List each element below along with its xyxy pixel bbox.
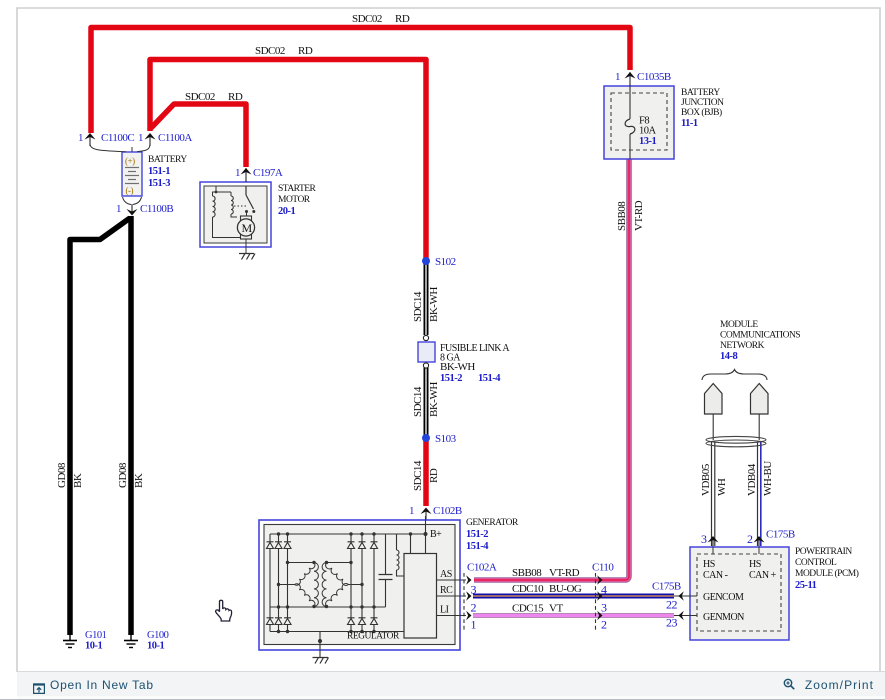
rectifier diodes top row xyxy=(267,542,378,549)
svg-text:BK-WH: BK-WH xyxy=(428,287,440,322)
ground G100 xyxy=(124,634,138,648)
svg-text:3: 3 xyxy=(471,583,477,597)
svg-text:C110: C110 xyxy=(592,562,614,574)
svg-text:1: 1 xyxy=(78,132,83,144)
svg-text:WH-BU: WH-BU xyxy=(762,461,774,496)
svg-text:CDC15: CDC15 xyxy=(512,603,544,615)
svg-text:RD: RD xyxy=(298,45,313,57)
svg-text:13-1: 13-1 xyxy=(639,136,656,147)
connector C1100B xyxy=(127,204,138,216)
svg-text:4: 4 xyxy=(601,583,607,597)
svg-text:14-8: 14-8 xyxy=(720,351,737,362)
svg-text:BATTERY: BATTERY xyxy=(681,88,720,98)
svg-text:CAN +: CAN + xyxy=(749,570,777,581)
svg-text:151-2: 151-2 xyxy=(440,373,462,384)
svg-text:BK: BK xyxy=(72,473,84,488)
svg-text:HS: HS xyxy=(703,559,715,570)
module communications network terminator left xyxy=(705,384,723,415)
svg-text:C102B: C102B xyxy=(433,505,462,517)
svg-text:COMMUNICATIONS: COMMUNICATIONS xyxy=(720,331,800,341)
C175B arrows xyxy=(678,591,683,620)
svg-text:1: 1 xyxy=(138,132,143,144)
svg-text:RD: RD xyxy=(395,13,410,25)
svg-text:B+: B+ xyxy=(430,529,442,540)
svg-text:MODULE (PCM): MODULE (PCM) xyxy=(795,568,859,579)
wire SDC14 BK-WH lower segment xyxy=(424,366,429,438)
svg-text:2: 2 xyxy=(601,618,607,632)
svg-text:C1100B: C1100B xyxy=(140,203,173,215)
svg-text:SDC14: SDC14 xyxy=(412,386,424,417)
svg-text:M: M xyxy=(242,221,253,235)
svg-text:POWERTRAIN: POWERTRAIN xyxy=(795,547,852,557)
wire SBB08 VT-RD (BJB to C110 to generator AS) xyxy=(474,159,629,580)
fusible link A xyxy=(418,342,435,362)
svg-text:AS: AS xyxy=(440,569,452,580)
wire CDC15 VT (generator LI to PCM GENMON) xyxy=(473,613,674,618)
svg-text:C1100A: C1100A xyxy=(158,132,192,144)
svg-text:1: 1 xyxy=(409,505,414,517)
starter solenoid coil 2 xyxy=(231,196,233,214)
svg-text:CDC10: CDC10 xyxy=(512,583,544,595)
wire GD08 BK battery ground left branch xyxy=(70,218,130,635)
svg-text:HS: HS xyxy=(749,559,761,570)
brace over network terminators xyxy=(702,370,767,381)
svg-text:10-1: 10-1 xyxy=(85,641,102,652)
svg-text:BATTERY: BATTERY xyxy=(148,155,187,165)
svg-text:LI: LI xyxy=(440,605,449,616)
regulator U (box) xyxy=(404,554,437,639)
module communications network terminator right xyxy=(751,384,769,415)
svg-text:VT-RD: VT-RD xyxy=(549,567,580,579)
wire SDC02 RD starter run xyxy=(151,104,246,167)
wire VDB04 WH-BU (HS CAN +) xyxy=(758,414,761,546)
svg-text:3: 3 xyxy=(601,601,607,615)
svg-text:SBB08: SBB08 xyxy=(512,567,542,579)
wire CDC10 BU-OG (generator RC to PCM GENCOM) xyxy=(473,594,674,599)
svg-text:RD: RD xyxy=(428,468,440,483)
ground G101 xyxy=(63,634,77,648)
svg-text:SDC02: SDC02 xyxy=(185,91,215,103)
svg-text:151-4: 151-4 xyxy=(466,541,489,552)
connector C175B pin2 arrow xyxy=(754,536,765,547)
svg-text:MOTOR: MOTOR xyxy=(278,195,311,205)
svg-text:1: 1 xyxy=(116,203,121,215)
svg-text:3: 3 xyxy=(701,532,707,546)
svg-text:(-): (-) xyxy=(126,186,134,196)
svg-text:25-11: 25-11 xyxy=(795,580,817,591)
svg-text:151-2: 151-2 xyxy=(466,529,488,540)
svg-text:BK: BK xyxy=(133,473,145,488)
PCM internal leads xyxy=(674,547,759,616)
battery (box) xyxy=(122,152,142,196)
junction dots xyxy=(277,532,428,643)
svg-text:VT: VT xyxy=(549,603,563,615)
generator rotor coil xyxy=(397,550,400,570)
connector dashed line C110 xyxy=(595,573,597,630)
starter internal wiring xyxy=(213,186,241,238)
svg-text:BU-OG: BU-OG xyxy=(549,583,582,595)
connector C1035B xyxy=(625,72,636,86)
bottom toolbar xyxy=(17,671,885,696)
connector C102B xyxy=(421,508,432,535)
svg-text:CONTROL: CONTROL xyxy=(795,558,837,568)
rectifier diodes bottom row xyxy=(267,618,378,625)
svg-text:1: 1 xyxy=(235,167,240,179)
PCM (box) xyxy=(690,547,789,640)
svg-text:VDB05: VDB05 xyxy=(700,463,712,496)
starter motor M xyxy=(241,216,252,221)
svg-text:SDC02: SDC02 xyxy=(352,13,382,25)
svg-text:WH: WH xyxy=(716,478,728,496)
svg-text:VT-RD: VT-RD xyxy=(633,200,645,231)
svg-text:GENCOM: GENCOM xyxy=(703,592,744,603)
svg-text:G100: G100 xyxy=(147,630,169,641)
connector dashed line C102A xyxy=(463,573,465,630)
splice S103 xyxy=(422,434,430,442)
svg-text:SBB08: SBB08 xyxy=(616,201,628,231)
generator stator winding left delta xyxy=(295,563,319,607)
svg-text:GENERATOR: GENERATOR xyxy=(466,518,519,528)
splice S102 xyxy=(422,257,430,265)
svg-text:RD: RD xyxy=(228,91,243,103)
svg-text:VDB04: VDB04 xyxy=(746,463,758,496)
svg-text:GD08: GD08 xyxy=(117,462,129,488)
svg-text:1: 1 xyxy=(615,71,620,83)
svg-text:BK-WH: BK-WH xyxy=(440,361,475,373)
svg-text:SDC14: SDC14 xyxy=(412,460,424,491)
wire SDC02 RD battery feed (top run) xyxy=(91,28,630,134)
fuse F8 xyxy=(629,86,631,119)
starter solenoid coil 1 xyxy=(213,196,216,217)
svg-text:BOX (BJB): BOX (BJB) xyxy=(681,107,722,118)
connector C1100C xyxy=(85,133,96,146)
battery junction box BJB (box) xyxy=(604,86,674,159)
starter mechanical link (dotted) xyxy=(234,205,246,207)
svg-text:JUNCTION: JUNCTION xyxy=(681,98,724,108)
twisted pair symbol xyxy=(706,436,766,446)
svg-text:GD08: GD08 xyxy=(56,462,68,488)
starter switch xyxy=(246,186,254,209)
svg-text:20-1: 20-1 xyxy=(278,206,295,217)
connector C1100A xyxy=(145,133,156,146)
svg-text:C175B: C175B xyxy=(652,581,681,593)
svg-text:C1100C: C1100C xyxy=(101,132,134,144)
battery brace upper xyxy=(90,144,150,152)
svg-text:CAN -: CAN - xyxy=(703,570,728,581)
starter motor U (box) xyxy=(200,182,271,247)
generator stator winding right delta xyxy=(322,563,348,607)
wire SDC14 RD segment S103 to C102B xyxy=(423,438,429,506)
svg-text:GENMON: GENMON xyxy=(703,612,744,623)
svg-text:NETWORK: NETWORK xyxy=(720,341,765,351)
battery brace lower xyxy=(123,197,142,205)
connector C197A xyxy=(241,168,252,182)
svg-text:C197A: C197A xyxy=(253,167,283,179)
C110 arrows xyxy=(597,575,602,620)
svg-text:2: 2 xyxy=(471,601,477,615)
C102A arrows xyxy=(466,575,471,620)
svg-text:151-1: 151-1 xyxy=(148,166,170,177)
svg-text:10A: 10A xyxy=(639,126,657,137)
svg-text:1: 1 xyxy=(471,618,477,632)
svg-text:151-3: 151-3 xyxy=(148,178,170,189)
generator output leads AS RC LI xyxy=(437,580,467,616)
wire SDC02 RD generator run xyxy=(150,60,426,260)
generator internal buses and verticals xyxy=(270,516,426,657)
svg-text:151-4: 151-4 xyxy=(478,373,501,384)
ground (generator, chassis) xyxy=(313,658,329,664)
svg-text:S102: S102 xyxy=(435,256,456,268)
svg-text:MODULE: MODULE xyxy=(720,320,758,330)
starter ground lead xyxy=(245,239,247,254)
wire VDB05 WH (HS CAN -) xyxy=(712,414,715,546)
svg-text:C102A: C102A xyxy=(467,562,497,574)
generator (box) xyxy=(259,520,460,650)
svg-text:S103: S103 xyxy=(435,433,457,445)
cursor hand pointer xyxy=(216,600,232,621)
svg-text:2: 2 xyxy=(747,532,753,546)
svg-text:23: 23 xyxy=(666,616,678,630)
svg-text:RC: RC xyxy=(440,585,453,596)
svg-text:SDC14: SDC14 xyxy=(412,291,424,322)
svg-text:SDC02: SDC02 xyxy=(255,45,285,57)
svg-text:22: 22 xyxy=(666,598,678,612)
connector C175B pin3 arrow xyxy=(708,536,719,547)
svg-text:BK-WH: BK-WH xyxy=(428,382,440,417)
svg-text:(+): (+) xyxy=(125,156,135,166)
svg-text:C1035B: C1035B xyxy=(637,71,671,83)
ground (starter, chassis) xyxy=(239,254,255,260)
wire GD08 BK battery ground right xyxy=(128,216,134,635)
svg-text:G101: G101 xyxy=(85,630,107,641)
svg-text:11-1: 11-1 xyxy=(681,118,698,129)
svg-text:10-1: 10-1 xyxy=(147,641,164,652)
wire SDC14 BK-WH upper segment xyxy=(424,261,429,335)
svg-text:STARTER: STARTER xyxy=(278,184,317,194)
svg-text:REGULATOR: REGULATOR xyxy=(347,632,400,642)
svg-text:C175B: C175B xyxy=(766,529,795,541)
